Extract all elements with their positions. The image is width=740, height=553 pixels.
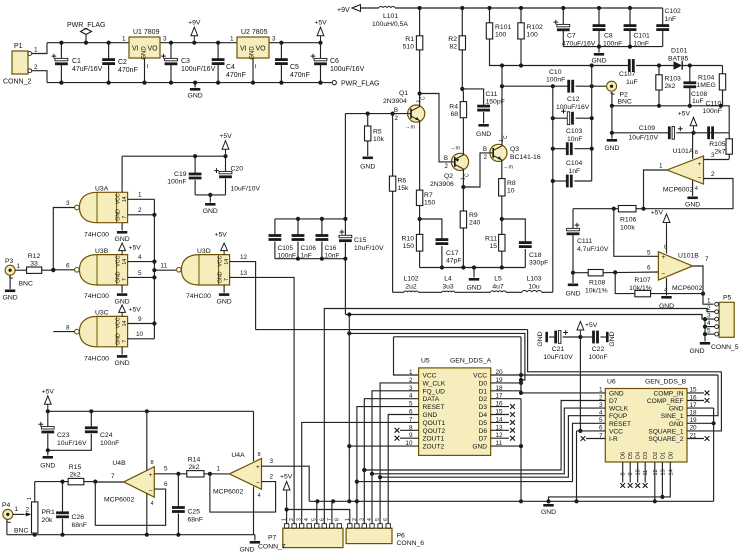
capacitor C18 330pF [519,241,532,244]
svg-text:U3A: U3A [95,186,109,193]
svg-text:D2: D2 [479,396,488,403]
svg-text:GEN_DDS_B: GEN_DDS_B [645,379,687,386]
svg-text:C2: C2 [118,59,127,66]
svg-text:−: − [662,271,666,278]
svg-text:2: 2 [138,207,142,214]
svg-text:GND: GND [565,291,580,298]
no-connect U5 pins 16-12 [491,406,509,408]
connector P2 BNC [607,81,617,91]
svg-text:SQUARE_1: SQUARE_1 [648,428,684,435]
svg-text:CONN_5: CONN_5 [711,344,739,351]
no-connect U5 pin9 [400,437,419,439]
svg-text:8: 8 [621,472,627,475]
svg-text:4u7: 4u7 [492,284,504,291]
wire gate input bus [153,199,155,338]
svg-text:U3C: U3C [95,310,109,317]
wire +5V vertical x521 [520,337,522,391]
svg-text:L4: L4 [444,276,452,283]
regulator U2 7805 [237,37,269,58]
connector P7 CONN_7 [283,528,343,547]
svg-text:+5V: +5V [129,245,142,252]
svg-text:3u3: 3u3 [442,284,454,291]
svg-text:GND: GND [115,271,121,283]
svg-text:RESET: RESET [423,404,445,411]
wire P1 pin1 to top rail [32,43,47,54]
no-connect U6 pin21 SQUARE_2 [687,438,704,440]
wire U5 pin6 GND [388,415,418,524]
svg-text:+5V: +5V [585,322,598,329]
svg-text:12: 12 [240,254,248,261]
resistor R12 33 [27,267,42,273]
wire U3D input pin13 to P7 [230,277,295,523]
resistor R105 2k7 [728,133,730,139]
svg-text:C104: C104 [566,160,582,167]
svg-text:5: 5 [164,466,168,473]
capacitor C3 100uF/16V [170,43,172,59]
transistor Q3 BC141-16 [490,144,507,161]
svg-text:68nF: 68nF [188,517,204,524]
svg-text:+9V: +9V [188,20,201,27]
wire caps bottom to bus L2 [344,259,346,315]
svg-text:20k: 20k [42,517,54,524]
svg-text:2k2: 2k2 [189,464,200,471]
ground GND below R5 [363,157,373,160]
svg-text:C109: C109 [639,125,655,132]
wire gnd vertical right of U6 [713,408,715,501]
IC U5 GEN_DDS_A [419,368,491,456]
ground P3 GND [9,275,11,289]
svg-text:2k7: 2k7 [715,149,726,156]
no-connect U6 pin15 [687,392,704,394]
capacitor C104 1nF [553,180,568,182]
resistor R108 10k/1% [573,272,588,274]
ground GND below C8 [598,47,600,53]
svg-text:VCC: VCC [115,255,121,266]
svg-text:15: 15 [489,243,497,250]
svg-text:R6: R6 [398,178,407,185]
svg-text:VCC: VCC [217,255,223,266]
svg-text:C26: C26 [72,514,85,521]
resistor R5 10k [367,114,369,126]
wire Q3 collector column [501,144,503,147]
svg-text:RESET: RESET [609,421,631,428]
op-amp U4B MCP6002 [124,467,155,498]
wire R8 bottom node [500,217,504,221]
svg-text:1: 1 [34,47,38,54]
svg-text:B: B [444,155,448,162]
svg-text:C24: C24 [100,432,113,439]
svg-text:GND: GND [466,285,481,292]
svg-text:GND: GND [541,509,556,516]
op-amp U101A MCP6002 [667,156,704,184]
svg-text:GND: GND [476,131,491,138]
svg-text:2u2: 2u2 [405,284,417,291]
wire U3A VCC [121,156,123,192]
wire Q2 collector to R9 and Q3 base [462,169,464,187]
wire +5V to P7 pin1 and P6 pin1 [286,510,288,524]
svg-text:2: 2 [395,115,399,122]
svg-text:C: C [421,96,427,100]
svg-text:→m: →m [405,125,416,131]
svg-text:510: 510 [403,44,415,51]
svg-text:100nF: 100nF [703,108,722,115]
capacitor C102 1nF [662,8,664,25]
capacitor C111 4.7uF/10V [572,209,574,229]
resistor R107 10k/1% [635,290,651,296]
resistor R9 240 [462,187,464,211]
wire U5 pin18 D1 [491,383,521,391]
svg-text:74HC00: 74HC00 [186,293,211,300]
wire U4A V- [253,487,255,535]
wire P5 pin2 from bus L1 [707,309,715,312]
capacitor C20 10uF/10V [225,156,227,172]
svg-text:150pF: 150pF [486,99,505,106]
inductor L101 100uH/0.5A [361,7,379,9]
svg-text:ZOUT1: ZOUT1 [423,436,445,443]
transistor Q2 2N3906 [451,153,468,170]
svg-text:GND: GND [142,46,148,60]
wire P1 pin2 to bottom rail [32,71,47,83]
svg-text:GEN_DDS_A: GEN_DDS_A [450,358,492,365]
wire +5V rail C19/C20 [122,155,225,157]
svg-text:R8: R8 [507,180,516,187]
svg-text:100nF: 100nF [546,77,565,84]
svg-text:3: 3 [66,200,70,207]
wire U4B feedback loop [95,482,165,526]
svg-text:2: 2 [711,171,715,178]
wire R6 to LC line [392,191,394,292]
wire U3C output pin8 [53,331,74,333]
svg-text:U3D: U3D [197,248,211,255]
wire R107 loop [615,272,635,293]
svg-text:R9: R9 [469,212,478,219]
svg-text:C: C [503,135,509,139]
svg-text:100nF: 100nF [588,354,607,361]
svg-text:GND: GND [669,421,684,428]
ground GND below DDS [546,499,550,503]
wire rail R101/R102 bottoms [490,39,630,66]
svg-text:I-R: I-R [609,436,618,443]
svg-text:+: + [698,161,702,168]
svg-text:D2: D2 [653,452,659,459]
svg-text:R11: R11 [485,236,497,243]
svg-text:P4: P4 [2,502,11,509]
svg-text:33: 33 [30,261,38,268]
svg-text:C8: C8 [604,33,613,40]
svg-text:1MEG: 1MEG [697,82,716,89]
connector P6 CONN_6 [346,528,392,543]
svg-text:C23: C23 [57,432,70,439]
diode D101 BAT85 [674,61,683,69]
svg-text:GND: GND [115,209,121,221]
capacitor C10 100nF [501,66,503,144]
svg-text:10: 10 [507,188,515,195]
svg-text:C12: C12 [567,96,580,103]
wire P4 shield to rail [6,520,8,535]
svg-text:→m: →m [503,165,514,171]
capacitor C4 470nF [217,43,219,59]
svg-text:Q1: Q1 [399,90,408,97]
svg-text:VCC: VCC [609,428,623,435]
svg-text:150: 150 [403,243,415,250]
svg-text:MCP6002: MCP6002 [213,489,243,496]
svg-text:+5V: +5V [215,232,228,239]
svg-text:SINE_1: SINE_1 [661,413,684,420]
wire R7 bottom node [418,217,422,221]
svg-text:GND: GND [239,547,254,553]
ground rotated at C22 [606,332,609,342]
svg-text:6: 6 [164,481,168,488]
wire U6 pin4 FQUP bundle [380,416,605,478]
power +5V arrow C20 [225,149,227,156]
wire U101A V- to gnd [692,181,694,197]
svg-text:8: 8 [66,324,70,331]
power +5V U3B [121,251,123,255]
svg-text:CONN_7: CONN_7 [258,544,286,551]
svg-text:D7: D7 [609,398,618,405]
wire U5 pin19 D0 [491,382,521,384]
power +5V arrow at C21/C22 [579,330,581,337]
svg-text:−: − [698,175,702,182]
svg-text:P2: P2 [620,92,629,99]
wire Q3 emitter to R8 [501,160,503,179]
svg-text:R105: R105 [709,141,725,148]
svg-text:MCP6002: MCP6002 [104,497,134,504]
svg-text:7: 7 [224,278,230,281]
svg-text:C16: C16 [325,245,337,252]
svg-text:U101A: U101A [673,148,694,155]
wire Q1 base rail [345,113,407,115]
svg-text:+5V: +5V [42,388,55,395]
svg-text:+5V: +5V [314,20,327,27]
svg-text:QOUT1: QOUT1 [423,420,446,427]
svg-text:GND: GND [609,390,624,397]
svg-text:B: B [483,146,487,153]
ground U101A GND [687,197,697,200]
ground U3D GND pin [223,285,225,293]
capacitor C25 68nF [177,474,179,507]
wire +5V rail bottom [48,410,254,412]
svg-text:L5: L5 [494,276,502,283]
svg-text:+9V: +9V [337,7,350,14]
svg-text:L102: L102 [403,276,418,283]
capacitor C21 10uF/10V [549,336,556,338]
svg-text:6: 6 [66,263,70,270]
no-connect U6 pin16 [687,400,704,402]
svg-text:R5: R5 [373,129,382,136]
wire U5 pin5 RESET [357,407,419,524]
wire U6 pin1 GND [521,392,605,394]
wire U5 pin20 VCC [491,374,521,376]
svg-text:C111: C111 [577,238,592,245]
svg-text:100uH/0,5A: 100uH/0,5A [372,21,408,28]
svg-text:7: 7 [705,256,709,263]
svg-text:VI: VI [240,46,247,53]
svg-text:14: 14 [122,321,128,327]
svg-text:8: 8 [334,518,340,521]
svg-text:6: 6 [319,518,325,521]
inductor L5 4u7 [455,291,491,293]
svg-text:100uF/16V: 100uF/16V [181,66,216,73]
svg-text:9: 9 [138,316,142,323]
svg-text:10: 10 [636,469,642,475]
wire bus tap to U3D pin11 [154,269,176,271]
capacitor C101 10nF [629,8,631,25]
wire C107 to D101 [636,65,673,67]
wire U5 pin7 QOUT1 [302,422,419,523]
IC U6 GEN_DDS_B [605,389,687,463]
svg-text:GND: GND [217,298,232,305]
svg-text:GND: GND [537,331,544,346]
resistor R1 510 [419,8,421,36]
wire U6 pin3 WCLK bundle [372,408,605,474]
ground U3B GND pin [121,285,123,293]
svg-text:GND: GND [115,236,130,243]
wire U1 GND pin [144,58,146,83]
svg-text:U1 7809: U1 7809 [133,29,160,36]
svg-text:VO: VO [256,46,267,53]
svg-text:D3: D3 [479,404,488,411]
wire U5 pin3 FQ_UD [372,391,419,524]
wire DDS gnd rail [309,500,713,502]
wire U2 GND pin [252,58,254,83]
resistor R8 10 [499,179,505,196]
logic gate U3B 74HC00 [79,255,127,285]
wire U6 pin2 D7 bundle [364,401,605,471]
capacitor C11 150pF [477,105,490,108]
svg-text:3: 3 [359,518,365,521]
svg-text:GND: GND [203,208,218,215]
svg-text:DATA: DATA [423,396,440,403]
svg-text:R104: R104 [698,75,714,82]
wire bus L4 [349,333,525,380]
capacitor C8 100nF [598,8,600,25]
svg-text:C21: C21 [552,346,565,353]
capacitor C103 10nF [553,148,568,150]
svg-text:14: 14 [668,469,674,475]
svg-text:VCC: VCC [423,373,437,380]
svg-text:1: 1 [15,506,19,513]
capacitor C110 100nF [707,126,710,139]
wire U6 D1 down [661,462,663,497]
wire U4B V- [146,494,148,535]
svg-text:PWR_FLAG: PWR_FLAG [67,22,106,29]
svg-text:GND: GND [689,348,704,355]
svg-text:BNC: BNC [19,281,33,288]
svg-text:PWR_FLAG: PWR_FLAG [341,81,380,88]
inductor L4 3u3 [418,291,442,293]
op-amp U101B MCP6002 [658,252,692,280]
svg-text:R1: R1 [405,36,414,43]
svg-text:240: 240 [469,220,481,227]
wire mid gnd rail [420,267,526,269]
svg-text:7: 7 [122,278,128,281]
svg-text:ZOUT2: ZOUT2 [423,444,445,451]
svg-text:FQUP: FQUP [609,413,628,420]
wire L3 to U6 SQUARE riser [528,330,722,372]
svg-text:47uF/16V: 47uF/16V [72,66,103,73]
capacitor C26 68nF [62,482,64,513]
svg-text:1: 1 [345,518,351,521]
resistor R106 100k [573,208,618,210]
resistor R2 82 [461,8,463,36]
svg-text:C4: C4 [226,64,235,71]
logic gate U3A 74HC00 [79,192,127,222]
wire bus L2 gnd to P5 [345,315,702,320]
wire Q1 base down to caps row [344,114,346,219]
svg-text:100uF/16V: 100uF/16V [556,104,590,111]
wire U6 D2 down to rail [654,462,656,501]
svg-text:P6: P6 [397,533,406,540]
svg-text:D0: D0 [668,452,674,459]
wire U101B pin5 input [614,209,659,257]
wire ZOUT2 vertical [348,315,350,502]
capacitor C15 10uF/10V [344,219,346,236]
svg-text:74HC00: 74HC00 [84,356,109,363]
wire bus L1 square to P5/P7 [324,309,707,524]
svg-text:4: 4 [258,493,261,499]
svg-text:5: 5 [375,518,381,521]
svg-text:6: 6 [383,518,389,521]
wire U6 pin19 GND [687,422,714,424]
svg-text:4: 4 [151,501,154,507]
svg-text:C3: C3 [181,58,190,65]
svg-text:12: 12 [653,469,659,475]
svg-text:D4: D4 [636,452,642,459]
svg-text:GND: GND [115,360,130,367]
svg-text:D0: D0 [479,380,488,387]
svg-text:100k: 100k [620,225,635,232]
svg-text:100nF: 100nF [100,440,119,447]
capacitor C6 100uF/16V [320,43,322,59]
svg-text:D5: D5 [479,420,488,427]
svg-text:7: 7 [327,518,333,521]
resistor R15 2k2 [35,481,68,483]
svg-text:C103: C103 [566,128,582,135]
wire to P7 pin5 [316,501,318,524]
wire P2 shield to gnd rail [611,92,613,106]
svg-text:GND: GND [40,463,55,470]
wire U4B pin5 [154,473,187,475]
svg-text:5: 5 [647,250,651,257]
wire U6 pin6 VCC from +5V [577,430,606,432]
wire top rail right [269,42,321,44]
svg-text:C107: C107 [619,71,635,78]
svg-text:U3B: U3B [95,248,109,255]
power +5V U3D [223,251,225,255]
capacitor C106 1nF [297,219,299,235]
wire pin6 branch to gnd rail [576,431,578,501]
ground GND below C19/C20 [209,195,211,203]
svg-text:Q2: Q2 [444,173,453,180]
wire U3A output pin3 [53,208,74,271]
svg-text:100: 100 [495,32,507,39]
svg-text:+: + [662,254,666,261]
svg-text:R10: R10 [402,236,415,243]
svg-text:R2: R2 [448,36,457,43]
svg-text:1: 1 [409,369,413,376]
capacitor C1 47uF/16V [60,43,62,59]
regulator U1 7809 [129,37,160,58]
wire U3C input pin9 [128,323,155,325]
wire U101B V+ to +5V [666,230,668,254]
svg-text:−: − [149,488,153,495]
wire U4A pin3 output path [262,466,310,501]
svg-text:D3: D3 [643,452,649,459]
svg-text:COMP_REF: COMP_REF [647,398,684,405]
power +9V arrow [193,36,195,43]
resistor R103 2k2 [658,66,660,75]
